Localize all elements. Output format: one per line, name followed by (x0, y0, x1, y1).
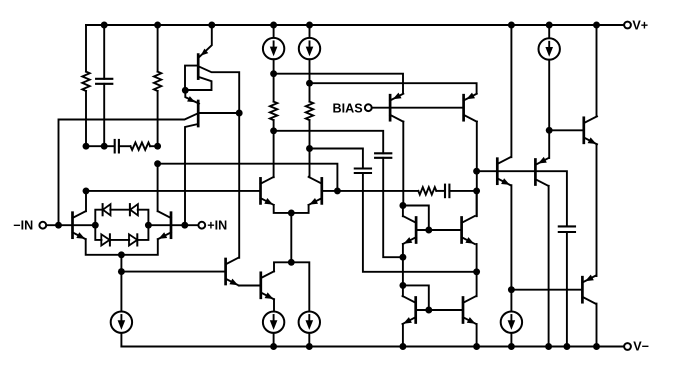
node tail dots (118, 251, 125, 258)
wire tail (120, 255, 122, 312)
transistor Q4 (259, 273, 262, 298)
wire Q9 base link (416, 309, 463, 311)
node right mirror node (473, 268, 480, 275)
node rail dot column B (306, 22, 313, 29)
svg-text:−IN: −IN (13, 219, 33, 233)
wire Qm2 base to node (322, 190, 338, 192)
node C6 rail (563, 343, 570, 350)
wire I2 to rail (273, 333, 275, 347)
resistor R4 (273, 74, 275, 102)
wire to C3 (310, 149, 363, 169)
node mirror base link (425, 227, 432, 234)
transistor Q11 (496, 159, 499, 184)
wire Q6-collector to Qm2 base link (158, 164, 338, 191)
wire Q10 emitter (476, 324, 478, 347)
node C5 node (473, 187, 480, 194)
transistor Q2 (197, 101, 200, 126)
wire Qm1 emitter (274, 205, 292, 213)
node column B branch (306, 80, 313, 87)
node I5 rail (306, 343, 313, 350)
current source I4 (309, 25, 311, 38)
node column A branch (270, 70, 277, 77)
wire V- bottom rail (121, 346, 624, 348)
wire column B to Qm2 collector (309, 149, 311, 178)
wire tail to Q3 base (121, 271, 225, 273)
diode D3 (101, 234, 109, 245)
transistor Q7 (415, 218, 418, 243)
node +IN junction (181, 222, 188, 229)
transistor Q6 (right input) (170, 213, 173, 238)
resistor R5 (309, 83, 311, 101)
wire Q8 emitter (476, 244, 478, 272)
node diode bridge left (92, 222, 99, 229)
node Q7 collector (399, 202, 406, 209)
wire Qm2 emitter (291, 205, 308, 213)
wire C5 to node (449, 190, 476, 192)
wire Q13 emitter down to Q14 (596, 144, 598, 276)
node RC row junctions (83, 143, 90, 150)
wire Q2 base (198, 112, 239, 114)
current source I3 (273, 25, 275, 38)
wire QB collector down (476, 122, 478, 217)
transistor QA (389, 95, 392, 120)
wire Q13 collector to rail (596, 25, 598, 116)
terminal -IN (39, 222, 46, 229)
current source I2 (263, 312, 284, 333)
wire QA collector down (402, 122, 404, 206)
node Q12 rail (545, 343, 552, 350)
node Q12 emitter / Q13 base (546, 127, 553, 134)
wire Q3 emitter to Q4 base (239, 285, 261, 287)
wire Q9 emitter (402, 324, 404, 347)
transistor Q8 (460, 218, 463, 243)
node Q9 rail (399, 343, 406, 350)
svg-text:+IN: +IN (207, 219, 227, 233)
svg-text:V+: V+ (632, 19, 648, 33)
resistor R3 (131, 143, 151, 150)
svg-text:BIAS: BIAS (333, 101, 363, 115)
terminal V- (624, 343, 631, 350)
capacitor C6 (559, 225, 575, 227)
wire RC row (86, 145, 114, 147)
wire tail to I5 (291, 262, 309, 311)
wire Q11 emitter down (510, 185, 512, 290)
node rail dot x596 (593, 22, 600, 29)
terminal +IN (198, 222, 205, 229)
node rail dot Q1 emitter (208, 22, 215, 29)
wire C3 down to right mirror node (363, 173, 477, 272)
node column A lower branch (270, 127, 277, 134)
wire Q4 emitter to I2 (273, 299, 275, 311)
diode D4 (129, 234, 137, 245)
capacitor C2 (114, 140, 116, 153)
wire Q11 bases link to Q12 and C6 (497, 171, 567, 226)
wire Q6 emitter to tail (121, 239, 157, 255)
wire Q9 collector join (402, 285, 404, 296)
wire first-stage output to Qm1 base (86, 190, 261, 192)
wire base drive to Q14 (511, 289, 582, 291)
transistor Q5 (left input) (71, 213, 74, 238)
node Q5 collector junction (83, 187, 90, 194)
wire Q9 diode link (403, 285, 429, 310)
node I2 rail (270, 343, 277, 350)
node middle tail (288, 209, 295, 216)
wire Q14 collector to rail (596, 304, 598, 347)
node I6 rail (508, 343, 515, 350)
resistor R2 (157, 25, 159, 72)
wire Q5 collector (85, 191, 87, 211)
diode bridge box (95, 210, 102, 226)
wire BIAS bases (372, 107, 464, 109)
wire -IN to diode bridge (46, 224, 95, 226)
transistor Q3 (224, 259, 227, 284)
node column B lower branch (306, 145, 313, 152)
terminal BIAS (365, 104, 372, 111)
node N1 (182, 87, 189, 94)
node Q6 collector junction (154, 160, 161, 167)
node Q7 emitter (399, 254, 406, 261)
wire Q13 base (549, 129, 584, 131)
wire I5 to rail (308, 333, 310, 347)
wire Q7 diode link (403, 206, 429, 231)
transistor Qm1 (259, 178, 262, 203)
current source I6 (510, 290, 512, 312)
wire Q7 emitter node down (402, 257, 404, 285)
wire R6 to C5 (436, 190, 445, 192)
transistor Q10 (462, 298, 465, 323)
resistor R1 (85, 25, 87, 72)
wire to QA emitter (274, 74, 403, 93)
node Q11 emitter node (508, 286, 515, 293)
wire Q7 emitter (402, 244, 404, 257)
wire Q12 collector to rail (548, 186, 550, 347)
wire C4 down to Q7 emitter node (383, 158, 403, 257)
wire to C4 (274, 131, 384, 154)
wire Q5 emitter to tail (86, 239, 122, 255)
node middle tail lower (288, 259, 295, 266)
current source I7 (548, 25, 550, 38)
wire Q7 base link (416, 229, 462, 231)
wire I1 to rail (120, 333, 122, 347)
node diode bridge right (145, 222, 152, 229)
wire Q11 collector to rail (510, 25, 512, 157)
node Qm2 base (334, 187, 341, 194)
wire C2 to R3 (119, 145, 131, 147)
capacitor C5 (444, 185, 446, 198)
wire Q12 emitter drop (548, 130, 550, 158)
wire Q6 collector (157, 164, 159, 212)
node rail dot column A (270, 22, 277, 29)
wire V+ top rail (86, 24, 624, 26)
capacitor C4 (375, 152, 391, 154)
transistor QB (462, 95, 465, 120)
diode D2 (130, 204, 138, 215)
transistor Q14 (581, 277, 584, 302)
node Q14 rail (593, 343, 600, 350)
node lower mirror base link (425, 307, 432, 314)
wire Qm2 base to R6 (337, 190, 418, 192)
wire Q7 collector join (402, 206, 404, 217)
wire C6 to rail (566, 232, 568, 347)
wire bridge to +IN (148, 224, 198, 226)
current source I1 (input tail) (111, 312, 132, 333)
wire N2 to Q3 collector (238, 113, 240, 258)
node QB collector / Q11 base (473, 168, 480, 175)
wire Q10 collector join (476, 272, 478, 296)
transistor Q1 (197, 55, 200, 79)
capacitor C1 (103, 25, 105, 79)
node rail dot x511 (508, 22, 515, 29)
transistor Q9 (414, 298, 417, 323)
node Q9 collector (399, 282, 406, 289)
capacitor C3 (355, 167, 371, 169)
node N2 (236, 110, 243, 117)
wire Q8 collector join (476, 191, 478, 216)
transistor Q12 (534, 160, 537, 185)
transistor Q13 (582, 118, 585, 143)
terminal V+ (624, 22, 631, 29)
wire Q11 base (477, 170, 498, 172)
resistor R6 (418, 187, 436, 194)
node RC junction dots on rail (101, 22, 108, 29)
wire -IN riser to Q2 collector2 (59, 113, 199, 225)
svg-text:V−: V− (633, 339, 649, 353)
node rail dot x549 (546, 22, 553, 29)
wire Q1 base loop (185, 66, 198, 90)
wire Q4 collector (274, 262, 291, 271)
node -IN junction (55, 222, 62, 229)
node Q10 rail (473, 343, 480, 350)
wire R3 to node (150, 145, 158, 147)
current source I5 (299, 312, 320, 333)
wire middle tail down (290, 213, 292, 262)
diode D1 (103, 204, 111, 215)
transistor Qm2 (320, 178, 323, 203)
wire column A to Qm1 collector (273, 131, 275, 177)
wire to QB emitter (310, 83, 477, 92)
